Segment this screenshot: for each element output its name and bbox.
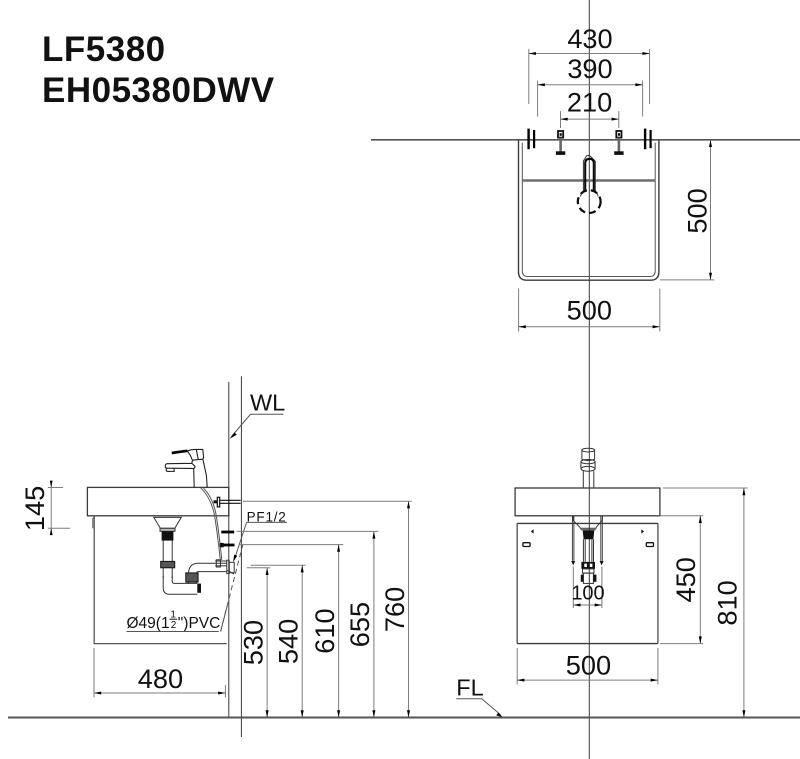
PVC label leader dashed (221, 543, 244, 632)
trap riser (188, 574, 190, 583)
faucet handle head (187, 449, 203, 460)
svg-text:655: 655 (344, 602, 375, 647)
svg-text:540: 540 (273, 619, 304, 664)
svg-text:FL: FL (456, 675, 483, 701)
tailpiece flange (160, 528, 175, 531)
svg-text:610: 610 (309, 608, 340, 653)
door handle right (646, 543, 653, 547)
faucet front: stem (583, 471, 594, 488)
svg-text:")PVC: ")PVC (178, 615, 221, 632)
dimension 500 bottom (plan) (519, 289, 660, 332)
tailpiece nut black (162, 531, 174, 540)
trap end cap (197, 584, 201, 593)
faucet spout (165, 460, 195, 468)
svg-text:Ø49(1: Ø49(1 (127, 615, 170, 632)
drain outlet fitting at wall (215, 560, 234, 574)
drain flange (front) (580, 528, 597, 530)
spout lip (166, 468, 174, 471)
cabinet body (front) (517, 523, 658, 643)
drain tailpiece funnel (side) (154, 517, 182, 528)
counter apron edge (93, 516, 95, 528)
tailpiece pipe (162, 541, 164, 578)
supply hose under faucet (201, 488, 221, 560)
wall mounting tick left pair (527, 129, 529, 150)
basin bowl back divider line (522, 179, 655, 182)
riser elbow to wall outlet (189, 563, 227, 574)
drain tailpiece (front) (583, 539, 593, 562)
svg-text:760: 760 (379, 587, 410, 632)
dimension 540 (251, 565, 306, 717)
svg-text:LF5380: LF5380 (42, 30, 166, 69)
dimension 655 (237, 531, 379, 717)
faucet collar arcs to drain (581, 191, 599, 197)
svg-text:145: 145 (19, 486, 50, 531)
fixing screw left (plan) (556, 131, 564, 154)
dimension 500 (front bottom) (517, 648, 658, 685)
faucet (side view) (165, 449, 207, 487)
dimension 145 (side) (19, 481, 70, 535)
dimension 610 (239, 545, 344, 718)
dimension 450 (front) (660, 516, 703, 644)
drain lower ring (front) (583, 569, 595, 573)
basin funnel (front) (573, 516, 602, 528)
drain hole dashed circle (plan) (578, 190, 601, 213)
dimension 500 right side (plan) (660, 140, 714, 280)
basin outer outline (plan) (519, 140, 659, 280)
PVC label text (127, 610, 221, 633)
svg-text:500: 500 (681, 188, 712, 233)
supply pipe right (front) (601, 516, 603, 561)
svg-text:2: 2 (171, 620, 177, 631)
drain trap adapter (front) (583, 573, 593, 583)
svg-text:530: 530 (238, 620, 269, 665)
svg-text:810: 810 (711, 580, 742, 625)
door swing arrow right (641, 529, 644, 533)
dimension 430 (plan) (529, 23, 650, 104)
supply stub lower square (220, 543, 224, 547)
cabinet top edge (517, 522, 658, 524)
svg-text:210: 210 (567, 86, 612, 117)
dimension 480 (side) (94, 648, 225, 697)
trap elbow and bottom pipe (163, 576, 197, 594)
faucet lever (172, 451, 188, 453)
pipe coupling nut 1 (161, 561, 175, 567)
svg-text:500: 500 (567, 295, 612, 326)
svg-text:430: 430 (567, 23, 612, 54)
wall line WL outer (240, 376, 242, 737)
svg-text:WL: WL (250, 390, 285, 416)
svg-text:390: 390 (567, 53, 612, 84)
wall fixing bolt (side) (214, 497, 241, 507)
wall line (plan) (371, 139, 800, 141)
centerline through top and front views (588, 0, 590, 759)
wall line WL inner (228, 382, 230, 718)
svg-text:100: 100 (571, 582, 604, 604)
faucet front: collar ring (581, 462, 595, 469)
svg-text:EH05380DWV: EH05380DWV (42, 71, 275, 110)
pipe coupling nut 2 (186, 573, 198, 582)
counter slab (front) (515, 488, 660, 516)
basin inner outline (plan) (522, 143, 655, 277)
svg-text:480: 480 (138, 663, 183, 694)
cabinet side panel (94, 518, 227, 644)
dimension 810 (front) (663, 488, 748, 718)
supply pipe left (front) (572, 516, 574, 561)
FL underline and leader (456, 699, 500, 715)
faucet front: top cap (581, 448, 595, 488)
supply stub lower tick PF1/2 (220, 544, 235, 547)
dimension 760 (243, 501, 412, 717)
PF1/2 underline and leader (235, 522, 288, 559)
cabinet bottom edge (517, 643, 658, 645)
drain nut black (front) (583, 530, 595, 539)
counter top slab (side) (87, 487, 228, 515)
door swing arrow left (531, 529, 534, 533)
svg-text:450: 450 (670, 557, 701, 602)
WL leader (232, 414, 284, 436)
wall mounting tick right pair (644, 129, 646, 150)
faucet outer contour (plan) (583, 155, 595, 192)
faucet body (plan, bold) (585, 159, 594, 192)
dimension 100 (front) (571, 567, 604, 609)
dimension 530 (238, 568, 271, 718)
dimension 390 (plan) (538, 53, 643, 117)
PVC label underline (127, 631, 219, 633)
supply stub upper tick PF1/2 (221, 531, 234, 534)
faucet body column (194, 459, 208, 487)
door handle left (523, 543, 530, 547)
svg-text:500: 500 (566, 650, 611, 681)
dimension 210 (plan) (561, 86, 619, 128)
floor line FL (8, 717, 800, 719)
fixing screw right (plan) (615, 131, 623, 154)
drain coupling nut (front) (581, 562, 595, 569)
